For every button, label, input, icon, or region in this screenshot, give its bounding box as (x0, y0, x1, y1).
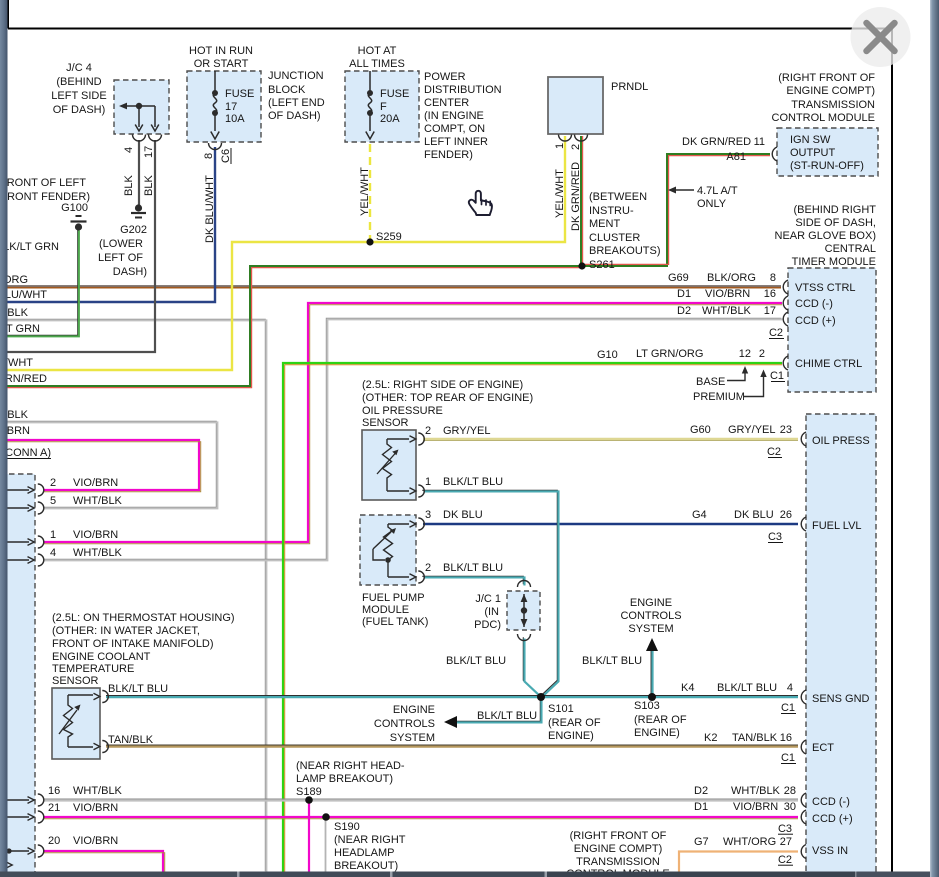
svg-text:G4: G4 (692, 509, 707, 521)
CTM CHIME CTRL pin 12/2 connector (783, 356, 788, 370)
svg-text:C1: C1 (770, 370, 784, 382)
svg-text:J/C 4: J/C 4 (66, 62, 92, 74)
svg-text:PDC): PDC) (474, 619, 501, 631)
svg-text:LT GRN/ORG: LT GRN/ORG (636, 348, 703, 360)
svg-text:K2: K2 (704, 732, 717, 744)
svg-text:C2: C2 (778, 854, 792, 866)
mouse hand cursor (469, 191, 492, 215)
wire DK GRN/RED from S261 to TCM IGN SW OUTPUT pin 11 (582, 154, 770, 266)
svg-text:27: 27 (780, 836, 792, 848)
svg-text:(RIGHT FRONT OF: (RIGHT FRONT OF (570, 830, 667, 842)
svg-text:1: 1 (50, 529, 56, 541)
svg-text:BLK/LT BLU: BLK/LT BLU (446, 655, 506, 667)
wire WHT/ORG from bottom edge to VSS IN pin 27 (679, 852, 798, 873)
svg-text:MENT: MENT (589, 218, 620, 230)
left edge wire label DK BLU/WHT (0, 289, 47, 301)
wire label DK BLU/WHT rotated (204, 175, 216, 243)
svg-text:CCD (+): CCD (+) (812, 813, 853, 825)
label BASE (696, 376, 725, 388)
J/C4 pin 4 connector (133, 135, 146, 142)
wire WHT/BLK from left edge to CONN A pin 5 (0, 421, 217, 508)
fuel pump module pin 2 connector (418, 571, 424, 583)
CONN A pin 20 row (48, 835, 118, 847)
svg-text:DK BLU: DK BLU (443, 509, 483, 521)
wire VIO/BRN from CONN A pin 1 to CTM CCD(-) pin 16 (44, 303, 782, 544)
wire VIO/BRN drop from S189 off-screen bottom (308, 802, 310, 872)
left edge wire label BLK/LT GRN (0, 323, 40, 335)
oil pressure sensor pin 2 connector (418, 433, 424, 445)
svg-text:BLK/LT BLU: BLK/LT BLU (477, 710, 537, 722)
wire DK BLU from fuel pump module pin 3 to FUEL LVL pin 26 (423, 523, 798, 525)
svg-text:SENSOR: SENSOR (362, 417, 409, 429)
engine controls system label (S103 arrow) (620, 597, 681, 635)
svg-text:(OTHER: TOP REAR OF ENGINE): (OTHER: TOP REAR OF ENGINE) (362, 392, 533, 404)
connector C6 rotated underlined (220, 148, 232, 164)
label 4.7L A/T ONLY (697, 185, 738, 210)
J/C1 top connector (518, 581, 531, 588)
svg-text:CCD (-): CCD (-) (812, 796, 850, 808)
svg-text:ENGINE COMPT): ENGINE COMPT) (574, 843, 663, 855)
svg-text:16: 16 (48, 785, 60, 797)
svg-text:C3: C3 (778, 823, 792, 835)
TCM IGN SW OUTPUT pin 11 connector (772, 147, 777, 161)
wire label BLK rotated (pin 17) (143, 175, 155, 196)
PREMIUM variant arrow to pin 2 (744, 370, 767, 397)
svg-text:G69: G69 (668, 272, 689, 284)
svg-text:DK BLU/WHT: DK BLU/WHT (204, 175, 216, 243)
wire label BLK/LT BLU (left of J/C1) (446, 655, 506, 667)
svg-text:BLK/LT BLU: BLK/LT BLU (443, 476, 503, 488)
oil pressure sensor pin 1 connector (418, 485, 424, 497)
svg-text:CONTROLS: CONTROLS (374, 718, 435, 730)
svg-text:2: 2 (759, 348, 765, 360)
svg-text:CCD (+): CCD (+) (795, 315, 836, 327)
engine controls system label (S101 arrow) (374, 704, 435, 744)
wire BLK/LT BLU from J/C1 bottom to S101 (523, 637, 541, 697)
ground G100 (71, 216, 87, 231)
wire LT GRN/ORG from bottom edge to CHIME CTRL pin 12/2 (283, 363, 782, 872)
svg-text:WHT/BLK: WHT/BLK (73, 547, 123, 559)
svg-text:G100: G100 (61, 202, 88, 214)
CONN A pin 5 arrow and connector (0, 502, 44, 514)
svg-text:4.7L A/T: 4.7L A/T (697, 185, 738, 197)
svg-text:1: 1 (554, 143, 566, 149)
label FUSE F 20A (380, 88, 409, 125)
svg-text:LEFT SIDE: LEFT SIDE (51, 90, 106, 102)
central timer module box (lower connector C1/C2/C3) (806, 414, 876, 874)
svg-text:C1: C1 (781, 702, 795, 714)
CTM VSS IN pin 27 connector (801, 845, 806, 859)
CTM ECT pin 16 connector (801, 740, 806, 754)
4.7L A/T ONLY pointer arrow (668, 187, 694, 194)
connector label C2 underlined (oil press) (767, 446, 782, 458)
CTM CCD(-) pin 16 connector (783, 296, 788, 310)
svg-text:COMPT, ON: COMPT, ON (424, 123, 485, 135)
svg-text:(IN: (IN (484, 606, 499, 618)
svg-text:POWER: POWER (424, 71, 466, 83)
label G202 location (98, 224, 147, 278)
CTM pin names CCD/VSS lower (812, 796, 853, 857)
fuel pump module box (360, 515, 416, 585)
pin number 4 (J/C4) rotated (123, 147, 135, 153)
pin number 1 rotated (PRNDL) (554, 143, 566, 149)
svg-text:G202: G202 (120, 224, 147, 236)
svg-text:16: 16 (764, 288, 776, 300)
svg-text:(REAR OF: (REAR OF (548, 717, 601, 729)
svg-text:ALL TIMES: ALL TIMES (349, 58, 405, 70)
svg-text:J/C 1: J/C 1 (475, 593, 501, 605)
splice S189 (305, 796, 313, 804)
CTM CCD(-) pin 28 connector (801, 793, 806, 807)
left edge wire label WHT/BLK (0, 307, 29, 319)
svg-text:16: 16 (780, 732, 792, 744)
svg-text:FRONT OF INTAKE MANIFOLD): FRONT OF INTAKE MANIFOLD) (52, 638, 214, 650)
svg-text:17: 17 (764, 305, 776, 317)
splice S103 (648, 693, 656, 701)
svg-text:ENGINE COOLANT: ENGINE COOLANT (52, 651, 151, 663)
wire YEL/WHT from S259 to PRNDL pin 1 (370, 136, 565, 242)
fuel pump module level sender resistor (373, 521, 416, 580)
svg-text:BREAKOUTS): BREAKOUTS) (589, 245, 661, 257)
connector label C3 underlined (fuel lvl) (768, 531, 783, 543)
label transmission control module (top right) (772, 72, 876, 124)
svg-text:VIO/BRN: VIO/BRN (73, 529, 118, 541)
oil pressure sensor location label (362, 379, 533, 429)
svg-text:OIL PRESSURE: OIL PRESSURE (362, 405, 443, 417)
svg-text:BLK/LT BLU: BLK/LT BLU (443, 562, 503, 574)
CTM row K4 BLK/LT BLU 4 (681, 682, 793, 694)
svg-text:BREAKOUT): BREAKOUT) (334, 860, 398, 872)
wire BLK from J/C4 pin 17 to left edge (0, 140, 155, 352)
label S261 breakout block (589, 191, 661, 271)
svg-text:C6: C6 (220, 149, 232, 163)
svg-text:1: 1 (425, 476, 431, 488)
svg-text:BLK: BLK (143, 175, 155, 196)
svg-text:MODULE: MODULE (362, 604, 409, 616)
left edge wire label VIO/BRN (conn A) (0, 425, 30, 437)
CTM CCD(+) pin 30 connector (801, 810, 806, 824)
junction block pin 8 / C6 connector (209, 143, 222, 150)
svg-text:VIO/BRN: VIO/BRN (705, 288, 750, 300)
ECT sensor top pin connector (102, 691, 108, 703)
svg-text:10A: 10A (225, 113, 245, 125)
label FUSE 17 10A (225, 88, 254, 125)
svg-text:4: 4 (123, 147, 135, 153)
left edge wire label DK GRN/RED (0, 373, 47, 385)
wire DK GRN/RED from S261 to left edge (0, 266, 582, 388)
label IGN SW OUTPUT (ST-RUN-OFF) (790, 134, 864, 172)
svg-text:S190: S190 (334, 821, 360, 833)
CTM pin row G69 BLK/ORG 8 (668, 272, 776, 284)
svg-text:FUEL PUMP: FUEL PUMP (362, 592, 425, 604)
ground G202 (131, 204, 146, 217)
svg-text:ENGINE: ENGINE (393, 704, 435, 716)
svg-text:4: 4 (787, 682, 793, 694)
left edge wire label BLK/ORG (0, 274, 28, 286)
svg-text:ENGINE): ENGINE) (548, 730, 594, 742)
wire DK GRN/RED from PRNDL pin 2 to S261 (581, 136, 583, 266)
svg-text:VSS IN: VSS IN (812, 845, 848, 857)
svg-text:20: 20 (48, 835, 60, 847)
svg-text:PRNDL: PRNDL (611, 81, 648, 93)
svg-text:(LOWER: (LOWER (99, 238, 143, 250)
CONN A partial pin arrow at bottom edge (6, 862, 13, 869)
svg-text:SENS GND: SENS GND (812, 693, 870, 705)
svg-text:OIL PRESS: OIL PRESS (812, 435, 870, 447)
svg-text:S261: S261 (589, 259, 615, 271)
central timer module box (upper connector C1/C2) (788, 268, 876, 392)
wire GRY/YEL from oil pressure sensor pin 2 to OIL PRESS pin 23 (423, 439, 798, 441)
svg-text:CENTER: CENTER (424, 97, 469, 109)
svg-text:YEL/WHT: YEL/WHT (554, 169, 566, 218)
svg-text:OF DASH): OF DASH) (53, 104, 106, 116)
CTM pin names upper box (795, 282, 862, 370)
CONN A pin 2 arrow and connector (0, 484, 44, 496)
CONN A pin 5 row (50, 495, 123, 507)
svg-text:S259: S259 (376, 231, 402, 243)
svg-text:ENGINE: ENGINE (630, 597, 672, 609)
J/C4 internal bus with left arrow and pin drops (119, 103, 159, 131)
svg-text:SENSOR: SENSOR (52, 675, 99, 687)
bottom toolbar strip (0, 872, 930, 877)
svg-text:ONLY: ONLY (697, 198, 727, 210)
svg-text:8: 8 (203, 153, 215, 159)
svg-text:G7: G7 (694, 836, 709, 848)
engine coolant temperature sensor box (52, 688, 100, 759)
svg-text:(2.5L: RIGHT SIDE OF ENGINE): (2.5L: RIGHT SIDE OF ENGINE) (362, 379, 523, 391)
fuse F 20A element (366, 71, 374, 139)
svg-text:(IN ENGINE: (IN ENGINE (424, 110, 484, 122)
oil pressure sensor variable resistor (377, 436, 416, 494)
svg-text:23: 23 (780, 424, 792, 436)
label PREMIUM (693, 391, 745, 403)
svg-text:WHT/BLK: WHT/BLK (731, 785, 781, 797)
svg-text:D2: D2 (694, 785, 708, 797)
svg-text:OF DASH): OF DASH) (268, 110, 321, 122)
wire label BLK/LT BLU (above S103) (582, 655, 642, 667)
svg-text:GRY/YEL: GRY/YEL (443, 425, 491, 437)
junction block fuse box (left end of dash) (187, 71, 261, 142)
connector label C1 underlined (sens gnd) (781, 702, 796, 714)
svg-text:G10: G10 (597, 349, 618, 361)
svg-text:(BEHIND RIGHT: (BEHIND RIGHT (794, 204, 877, 216)
svg-text:CONTROLS: CONTROLS (620, 610, 681, 622)
svg-text:2: 2 (425, 562, 431, 574)
CTM row D2 WHT/BLK 28 (694, 785, 796, 797)
svg-text:VIO/BRN: VIO/BRN (73, 477, 118, 489)
svg-text:YEL/WHT: YEL/WHT (359, 167, 371, 216)
svg-text:S103: S103 (634, 700, 660, 712)
wire label BLK/LT GRN (G100 wire) (0, 241, 59, 253)
label J/C 4 location (51, 62, 106, 116)
wire DK BLU/WHT from fuse 17 pin 8 to left edge (0, 147, 215, 302)
svg-text:C2: C2 (767, 446, 781, 458)
svg-text:DISTRIBUTION: DISTRIBUTION (424, 84, 502, 96)
oil sensor pin 2 row (425, 425, 491, 437)
svg-text:LAMP BREAKOUT): LAMP BREAKOUT) (296, 773, 393, 785)
splice S101 (537, 693, 545, 701)
label S101 (548, 703, 601, 742)
wire label YEL/WHT rotated (below fuse F) (359, 167, 371, 216)
label S103 (634, 700, 687, 739)
connector label C3 underlined (ccd) (778, 823, 793, 835)
svg-text:21: 21 (48, 802, 60, 814)
ECT sensor thermistor (59, 693, 100, 749)
svg-text:TRANSMISSION: TRANSMISSION (576, 856, 660, 868)
close button with X (851, 7, 911, 67)
svg-text:3: 3 (425, 509, 431, 521)
CONN A pin 16 arrow and connector (0, 794, 44, 806)
CONN A pin 16 row (48, 785, 123, 797)
wire BLK/ORG from left edge to VTSS CTRL pin 8 (0, 286, 781, 288)
svg-text:BLK/LT BLU: BLK/LT BLU (717, 682, 777, 694)
CTM pin name SENS GND (812, 693, 870, 705)
right scrollbar rail (930, 0, 939, 877)
CTM row G7 WHT/ORG 27 (694, 836, 792, 848)
label S259 (376, 231, 402, 243)
svg-text:(BETWEEN: (BETWEEN (589, 191, 647, 203)
left body-harness connector module (CONN A) box (0, 474, 35, 872)
svg-text:WHT/BLK: WHT/BLK (702, 305, 752, 317)
CTM SENS GND pin 4 connector (801, 690, 806, 704)
svg-text:DASH): DASH) (113, 266, 147, 278)
BASE variant arrow to pin 12 (727, 366, 748, 381)
svg-text:BLK/LT GRN: BLK/LT GRN (0, 241, 59, 253)
svg-text:SIDE OF DASH,: SIDE OF DASH, (795, 217, 876, 229)
svg-text:F: F (380, 101, 387, 113)
svg-text:INSTRU-: INSTRU- (589, 205, 634, 217)
svg-text:CENTRAL: CENTRAL (825, 243, 876, 255)
CTM row G4 DK BLU 26 (692, 509, 792, 521)
wire BLK/LT GRN from left edge to ground G100 (0, 229, 79, 336)
wire WHT/BLK from CONN A pin 16 through S189 to CTM CCD(-) pin 28 (44, 799, 798, 801)
J/C1 internal bus with up and down arrows (521, 594, 528, 627)
label HOT AT ALL TIMES (349, 45, 405, 70)
svg-text:(REAR OF: (REAR OF (634, 714, 687, 726)
CTM row K2 TAN/BLK 16 (704, 732, 792, 744)
wire BLK from J/C4 pin 4 to ground G202 (138, 140, 140, 205)
svg-text:VIO/BRN: VIO/BRN (73, 802, 118, 814)
svg-text:FENDER): FENDER) (424, 149, 473, 161)
connector label C1 underlined (770, 370, 785, 382)
svg-text:BLOCK: BLOCK (268, 84, 306, 96)
svg-text:30: 30 (784, 801, 796, 813)
svg-text:26: 26 (780, 509, 792, 521)
svg-text:OUTPUT: OUTPUT (790, 147, 836, 159)
PRNDL pin 2 connector (575, 135, 588, 142)
svg-text:(BEHIND: (BEHIND (56, 76, 101, 88)
junction block J/C 4 (behind left side of dash) (114, 80, 169, 134)
CTM pin row D2 WHT/BLK 17 (677, 305, 776, 317)
svg-text:CLUSTER: CLUSTER (589, 232, 640, 244)
CTM FUEL LVL pin 26 connector (801, 517, 806, 531)
svg-text:(LEFT END: (LEFT END (268, 97, 325, 109)
CTM pin row G10 LT GRN/ORG 12 2 (597, 348, 765, 361)
svg-text:5: 5 (50, 495, 56, 507)
svg-text:(RIGHT FRONT OF: (RIGHT FRONT OF (778, 72, 875, 84)
CONN A pin 4 row (50, 547, 123, 559)
left edge wire label YEL/WHT (0, 357, 33, 369)
svg-text:NEAR GLOVE BOX): NEAR GLOVE BOX) (775, 230, 876, 242)
transmission control module U1 box (777, 128, 878, 176)
pin number 17 (J/C4) rotated (143, 146, 155, 158)
svg-text:VIO/BRN: VIO/BRN (73, 835, 118, 847)
svg-text:K4: K4 (681, 682, 694, 694)
svg-text:TEMPERATURE: TEMPERATURE (52, 663, 134, 675)
wire BLK/LT BLU from fuel pump module pin 2 to J/C1 top (422, 576, 524, 585)
wire VIO/BRN from CONN A pin 21 through S190 to CTM CCD(+) pin 30 (44, 817, 798, 819)
CONN A pin 21 arrow and connector (0, 811, 44, 823)
fuel pump pin 2 row (425, 562, 503, 574)
left scrollbar rail (0, 0, 8, 877)
svg-text:2: 2 (425, 425, 431, 437)
svg-text:S189: S189 (296, 786, 322, 798)
splice S261 (578, 262, 585, 269)
svg-text:WHT/BLK: WHT/BLK (73, 785, 123, 797)
svg-text:12: 12 (739, 348, 751, 360)
label PRNDL (611, 81, 648, 93)
wire WHT drop from S190 off-screen bottom (325, 820, 327, 872)
svg-text:G60: G60 (690, 424, 711, 436)
svg-text:BLK/ORG: BLK/ORG (707, 272, 756, 284)
connector label C2 underlined (769, 327, 784, 339)
svg-text:C1: C1 (781, 752, 795, 764)
label J/C 1 (IN PDC) (474, 593, 501, 631)
svg-text:OR START: OR START (194, 58, 249, 70)
junction connector J/C 1 (in PDC) box (507, 591, 540, 630)
svg-text:BLK: BLK (123, 175, 135, 196)
svg-text:2: 2 (50, 477, 56, 489)
CONN A pin 1 arrow and connector (0, 536, 44, 548)
CTM pin name ECT (812, 742, 834, 754)
CTM OIL PRESS pin 23 connector (801, 432, 806, 446)
svg-text:FUSE: FUSE (380, 88, 409, 100)
left edge wire label WHT/BLK (conn A) (0, 409, 29, 421)
ECT sensor bottom pin connector (102, 741, 108, 753)
CONN A pin 20 arrow and connector (0, 845, 44, 857)
label central timer module (775, 204, 877, 268)
label G100 location (0, 177, 90, 214)
wire label TAN/BLK (ECT bottom) (108, 734, 154, 746)
CTM pin row D1 VIO/BRN 16 (677, 288, 776, 300)
svg-text:CHIME CTRL: CHIME CTRL (795, 358, 862, 370)
splice S259 (366, 238, 373, 245)
svg-text:(CONN A): (CONN A) (2, 447, 52, 459)
pin number 2 rotated (PRNDL) (570, 144, 582, 150)
connector label C1 underlined (ect) (781, 752, 796, 764)
svg-text:4: 4 (50, 547, 56, 559)
svg-text:(FRONT OF LEFT: (FRONT OF LEFT (0, 177, 86, 189)
svg-text:(NEAR RIGHT: (NEAR RIGHT (334, 834, 406, 846)
wire BLK/LT BLU stub from S103 up to engine controls system arrow (651, 650, 652, 697)
svg-text:LEFT OF: LEFT OF (98, 252, 143, 264)
svg-text:TIMER MODULE: TIMER MODULE (792, 256, 876, 268)
CTM row D1 VIO/BRN 30 (694, 801, 796, 813)
svg-text:D1: D1 (694, 801, 708, 813)
svg-text:CCD (-): CCD (-) (795, 298, 833, 310)
wire WHT/BLK from CONN A pin 4 to CTM CCD(+) pin 17 (43, 318, 782, 560)
wire YEL/WHT fusible dashed segment below PDC fuse F (369, 144, 371, 240)
svg-text:17: 17 (225, 101, 237, 113)
CTM CCD(+) pin 17 connector (783, 312, 788, 326)
svg-text:D1: D1 (677, 288, 691, 300)
wire label BLK/LT BLU (S101 stub) (477, 710, 537, 722)
svg-text:SYSTEM: SYSTEM (628, 623, 673, 635)
engine controls system arrow (left, from S101) (444, 716, 457, 728)
oil sensor pin 1 row (425, 476, 503, 488)
oil pressure sensor box (362, 430, 416, 500)
svg-text:D2: D2 (677, 305, 691, 317)
